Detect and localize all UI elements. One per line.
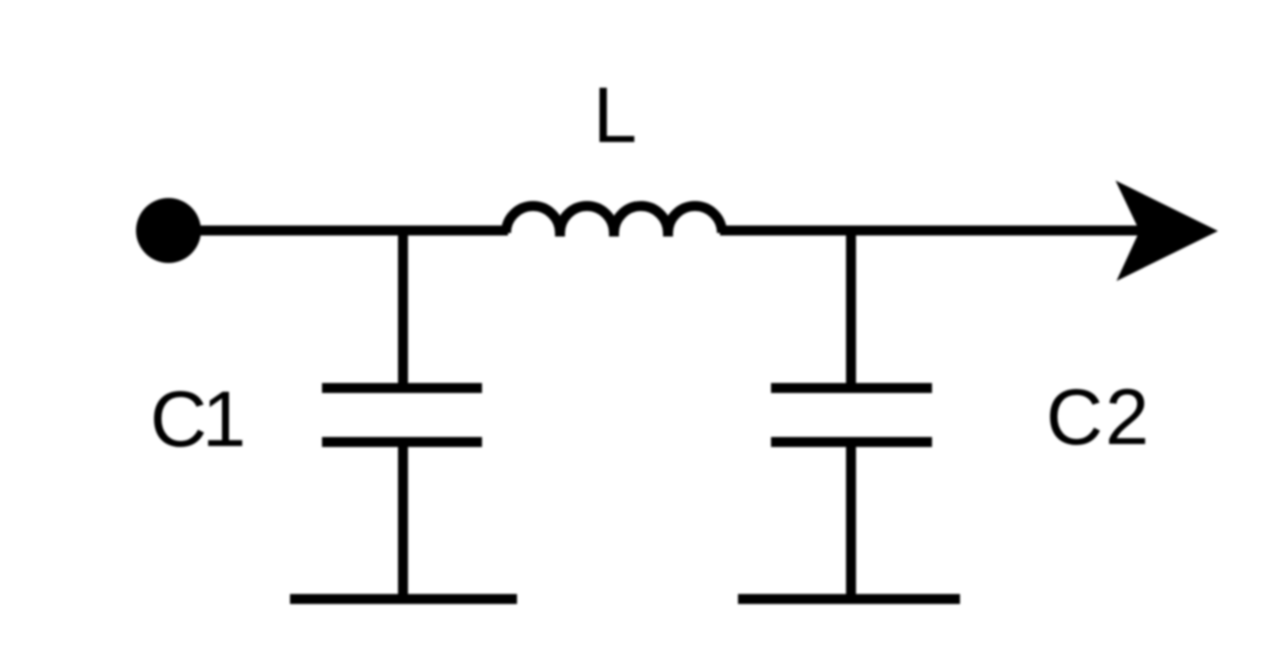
ground bar under C1: [290, 594, 517, 604]
wire: node A down to C1: [398, 231, 408, 391]
capacitor C1 bottom plate: [322, 437, 482, 447]
wire: inductor right terminal to node B: [720, 226, 851, 236]
wire: node B down to C2: [846, 231, 856, 391]
svg-text:C2: C2: [1046, 372, 1149, 461]
ground bar under C2: [738, 594, 960, 604]
input node (filled terminal dot): [136, 198, 201, 263]
capacitor C1 top plate: [322, 383, 482, 393]
wire: C2 bottom plate to ground bar: [846, 442, 856, 599]
wire: C1 bottom plate to ground bar: [398, 442, 408, 599]
capacitor C2 bottom plate: [771, 437, 932, 447]
inductor L (4 humps): [506, 206, 722, 237]
capacitor C2 top plate: [771, 383, 932, 393]
wire: node B to output arrow: [851, 226, 1150, 236]
svg-text:L: L: [593, 70, 637, 159]
output arrowhead: [1116, 181, 1219, 282]
svg-text:C1: C1: [150, 374, 246, 463]
wire: node A to inductor left terminal: [403, 226, 508, 236]
wire: input dot to node A: [168, 226, 403, 236]
